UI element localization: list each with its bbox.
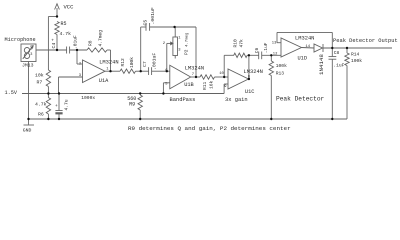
svg-text:R14: R14 bbox=[351, 52, 360, 58]
svg-text:13: 13 bbox=[272, 41, 277, 45]
svg-text:3: 3 bbox=[30, 53, 32, 57]
svg-text:.001uF: .001uF bbox=[151, 53, 157, 70]
svg-text:10: 10 bbox=[219, 72, 224, 76]
svg-text:R9 determines Q and gain, P2 d: R9 determines Q and gain, P2 determines … bbox=[128, 125, 291, 132]
svg-text:R13: R13 bbox=[276, 71, 285, 77]
svg-text:7: 7 bbox=[192, 73, 194, 77]
svg-text:Microphone: Microphone bbox=[5, 37, 36, 43]
svg-text:4.7k: 4.7k bbox=[60, 31, 72, 37]
svg-text:R12: R12 bbox=[120, 58, 126, 67]
svg-text:U1B: U1B bbox=[184, 82, 194, 88]
svg-text:JM13: JM13 bbox=[22, 63, 34, 69]
svg-text:U1C: U1C bbox=[245, 89, 255, 95]
svg-text:14: 14 bbox=[306, 45, 311, 49]
svg-text:C7: C7 bbox=[142, 61, 148, 67]
svg-text:4.7meg: 4.7meg bbox=[185, 32, 189, 47]
svg-text:GND: GND bbox=[23, 128, 32, 134]
svg-text:Peak Detector: Peak Detector bbox=[276, 95, 325, 102]
svg-text:.1uF: .1uF bbox=[264, 42, 269, 53]
svg-text:12: 12 bbox=[273, 52, 278, 56]
svg-text:R10: R10 bbox=[233, 39, 239, 48]
svg-text:LM324N: LM324N bbox=[244, 69, 263, 75]
svg-text:LM324N: LM324N bbox=[99, 60, 118, 66]
svg-text:R8: R8 bbox=[88, 40, 94, 46]
svg-text:U1A: U1A bbox=[99, 78, 109, 84]
svg-text:.001uF: .001uF bbox=[150, 7, 156, 24]
svg-text:+: + bbox=[55, 104, 58, 109]
svg-text:U1D: U1D bbox=[298, 56, 308, 62]
svg-text:VCC: VCC bbox=[64, 4, 75, 11]
svg-text:R6: R6 bbox=[38, 112, 44, 118]
svg-text:BandPass: BandPass bbox=[170, 97, 196, 103]
svg-text:LM324N: LM324N bbox=[185, 65, 204, 71]
svg-text:C5: C5 bbox=[142, 20, 148, 26]
svg-text:1N4148: 1N4148 bbox=[318, 54, 325, 75]
svg-text:100k: 100k bbox=[129, 57, 135, 68]
svg-text:R11: R11 bbox=[202, 81, 208, 90]
svg-text:.1uF: .1uF bbox=[333, 63, 344, 69]
svg-text:2: 2 bbox=[30, 47, 32, 51]
svg-text:C8: C8 bbox=[334, 50, 340, 56]
svg-text:R7: R7 bbox=[37, 80, 43, 86]
svg-text:100k: 100k bbox=[276, 63, 287, 69]
svg-text:100k: 100k bbox=[351, 58, 362, 64]
svg-text:.01uF: .01uF bbox=[73, 35, 79, 49]
svg-text:4.7meg: 4.7meg bbox=[98, 30, 104, 47]
svg-text:1.5V: 1.5V bbox=[5, 90, 18, 96]
svg-text:LM324N: LM324N bbox=[295, 36, 314, 42]
svg-text:10k: 10k bbox=[35, 73, 44, 79]
svg-text:C6: C6 bbox=[254, 47, 260, 53]
svg-text:R9: R9 bbox=[129, 102, 135, 108]
svg-text:4.7k: 4.7k bbox=[35, 102, 47, 108]
svg-text:4.7u: 4.7u bbox=[64, 99, 70, 110]
svg-text:Peak Detector Output: Peak Detector Output bbox=[333, 38, 398, 44]
svg-text:1000x: 1000x bbox=[81, 95, 95, 101]
svg-text:P2: P2 bbox=[183, 49, 189, 55]
svg-text:C4: C4 bbox=[51, 43, 57, 49]
svg-text:16k: 16k bbox=[209, 80, 215, 89]
svg-text:3x gain: 3x gain bbox=[225, 97, 248, 103]
svg-text:47k: 47k bbox=[239, 39, 245, 48]
svg-text:R5: R5 bbox=[61, 21, 67, 27]
